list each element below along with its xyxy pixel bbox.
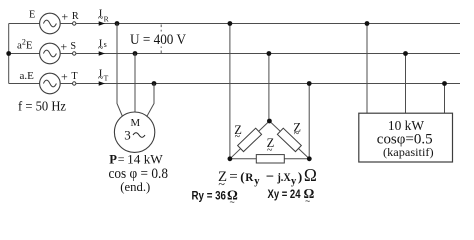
motor M xyxy=(114,112,154,152)
svg-text:+: + xyxy=(61,69,68,83)
svg-text:+: + xyxy=(61,9,68,23)
wire load box phase S drop xyxy=(405,54,407,114)
node S to motor xyxy=(133,51,138,56)
wire motor phase T xyxy=(147,84,154,117)
svg-text:R: R xyxy=(245,172,254,184)
svg-text:a.E: a.E xyxy=(20,70,35,82)
svg-text:a2E: a2E xyxy=(17,38,33,52)
wire load box phase T drop xyxy=(444,84,446,114)
svg-text:Ry = 36: Ry = 36 xyxy=(192,188,227,202)
svg-text:T: T xyxy=(71,71,78,82)
svg-text:3: 3 xyxy=(124,127,131,142)
impedance Z right (box) xyxy=(277,128,301,151)
impedance Z bottom (box) xyxy=(256,155,284,163)
wire bus R xyxy=(76,23,460,25)
svg-text:y: y xyxy=(291,176,297,187)
svg-text:P: P xyxy=(109,153,117,167)
node R delta xyxy=(228,21,233,26)
label Xy = 24 Ohm xyxy=(268,186,315,206)
wire left rail to source E xyxy=(9,23,40,25)
svg-text:=: = xyxy=(229,169,237,185)
label Ry = 36 Ohm xyxy=(192,187,239,207)
label Z right xyxy=(293,120,301,139)
wire source E to terminal R xyxy=(60,23,72,25)
svg-text:~: ~ xyxy=(235,132,241,143)
svg-text:(end.): (end.) xyxy=(120,180,150,194)
node R to motor xyxy=(115,21,120,26)
wire delta phase S drop xyxy=(268,54,270,122)
svg-text:S: S xyxy=(70,41,76,52)
wire motor phase R xyxy=(117,24,123,117)
svg-text:+: + xyxy=(60,40,67,54)
svg-text:~: ~ xyxy=(305,196,310,206)
voltage dashed line xyxy=(160,25,162,54)
wire source a2E to terminal S xyxy=(60,53,72,55)
node S load xyxy=(403,51,408,56)
current arrow IS xyxy=(99,51,105,55)
node T load xyxy=(442,81,447,86)
delta edge right xyxy=(269,121,309,159)
wire left rail to source aE xyxy=(9,83,40,85)
svg-text:−: − xyxy=(266,169,274,185)
current label IS xyxy=(98,38,107,54)
current arrow IT xyxy=(99,81,105,85)
current label IT xyxy=(98,68,109,84)
wire source aE to terminal T xyxy=(60,83,72,85)
wire load box phase R drop xyxy=(366,24,368,114)
svg-text:~: ~ xyxy=(267,145,273,156)
node T to motor xyxy=(152,81,157,86)
delta edge bottom xyxy=(230,158,309,160)
terminal T (open circle) xyxy=(73,82,76,85)
svg-text:f = 50 Hz: f = 50 Hz xyxy=(18,99,66,114)
svg-text:(: ( xyxy=(240,169,244,184)
node delta top vertex xyxy=(267,119,272,124)
formula Z = (Ry - j.Xy) Ohm xyxy=(218,165,317,191)
svg-text:R: R xyxy=(72,11,79,22)
source E (AC source, phase R) xyxy=(40,13,61,34)
label Z left xyxy=(234,123,242,143)
node junction left rail xyxy=(6,51,11,56)
svg-text:(kapasitif): (kapasitif) xyxy=(383,145,434,159)
svg-text:T: T xyxy=(104,74,109,83)
svg-text:j.X: j.X xyxy=(277,170,292,184)
svg-text:): ) xyxy=(298,169,302,184)
wire bus S xyxy=(76,53,460,55)
svg-text:U = 400 V: U = 400 V xyxy=(130,32,186,48)
svg-text:y: y xyxy=(254,176,260,187)
terminal R (open circle) xyxy=(73,22,76,25)
label P = 14 kW xyxy=(109,152,163,166)
wire delta phase R drop xyxy=(229,24,231,159)
svg-text:M: M xyxy=(131,117,141,129)
node delta bottom-left vertex xyxy=(228,156,233,161)
svg-text:~: ~ xyxy=(230,197,235,206)
source a2E (AC source, phase S) xyxy=(40,43,61,64)
impedance Z left (box) xyxy=(238,128,262,151)
svg-text:E: E xyxy=(29,10,35,21)
label Z bottom xyxy=(267,136,275,156)
load box 10 kW xyxy=(359,113,453,162)
node delta bottom-right vertex xyxy=(307,156,312,161)
current arrow IR xyxy=(99,21,105,25)
svg-text:14 kW: 14 kW xyxy=(127,153,163,167)
wire motor phase S xyxy=(134,54,136,113)
wire left rail to source a2E xyxy=(9,53,40,55)
label U = 400 V xyxy=(129,32,188,49)
node T delta xyxy=(307,81,312,86)
terminal S (open circle) xyxy=(73,52,76,55)
node R load xyxy=(365,21,370,26)
svg-text:~: ~ xyxy=(294,129,300,140)
svg-text:s: s xyxy=(104,40,107,49)
wire left rail vertical xyxy=(8,24,10,84)
wire delta phase T drop xyxy=(308,84,310,159)
svg-text:Ω: Ω xyxy=(304,165,317,185)
delta edge left xyxy=(230,121,270,159)
current label IR xyxy=(98,8,110,24)
source aE (AC source, phase T) xyxy=(40,73,61,94)
svg-text:=: = xyxy=(118,152,125,166)
wire bus T xyxy=(76,83,460,85)
svg-text:Xy = 24: Xy = 24 xyxy=(268,187,301,201)
node S delta xyxy=(267,51,272,56)
